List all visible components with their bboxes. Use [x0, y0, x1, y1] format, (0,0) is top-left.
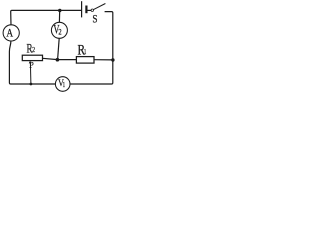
svg-text:1: 1	[63, 81, 65, 89]
svg-text:1: 1	[84, 48, 86, 56]
svg-text:S: S	[92, 14, 97, 26]
svg-text:2: 2	[58, 27, 62, 37]
svg-text:A: A	[6, 27, 13, 40]
svg-text:P: P	[29, 61, 34, 70]
svg-text:2: 2	[32, 46, 35, 54]
